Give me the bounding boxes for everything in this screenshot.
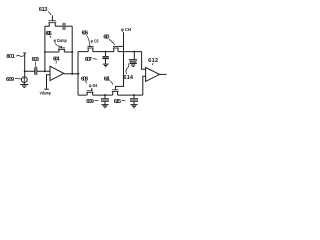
node dot C615/rail <box>133 94 135 96</box>
wire bottom rail right riser to op-amp 612 <box>143 76 146 95</box>
label 609 left <box>6 77 15 83</box>
label Vdamp <box>40 91 52 96</box>
wire damp branch <box>45 51 72 53</box>
lead line 614 <box>126 63 129 74</box>
label 607 <box>85 57 92 63</box>
svg-text:615: 615 <box>114 99 122 105</box>
transistor Q613 <box>48 15 56 26</box>
lead line 612 <box>151 63 154 66</box>
label 611 <box>104 77 111 83</box>
lead line phi Damp to gate <box>55 43 61 47</box>
capacitor C615 <box>130 95 138 104</box>
wire input horizontal to op-amp <box>25 70 50 72</box>
svg-text:Vdamp: Vdamp <box>40 91 52 96</box>
wire feedback loop right vertical <box>71 26 73 74</box>
ground under 607 <box>103 64 109 67</box>
wire output of 612 <box>160 73 167 75</box>
wire input vertical <box>24 53 26 77</box>
svg-text:φ C5: φ C5 <box>91 39 99 44</box>
ground under C615 <box>130 105 137 108</box>
wire feedback loop left vertical <box>44 26 46 71</box>
current source I609 <box>21 77 27 83</box>
label 604 <box>53 57 60 63</box>
svg-text:801: 801 <box>6 54 15 60</box>
resistor R603 <box>35 68 37 75</box>
svg-text:614: 614 <box>123 75 133 81</box>
transistor Q606 <box>87 45 93 52</box>
label 603 <box>32 57 40 63</box>
ground under 614 <box>130 64 137 67</box>
node dot feedback/damp <box>71 51 73 53</box>
svg-text:609: 609 <box>86 99 94 105</box>
ground under 609 <box>20 85 28 88</box>
wire Vdamp input stub <box>47 75 51 89</box>
op-amp U612 <box>146 67 160 81</box>
capacitor C607 <box>102 52 108 64</box>
capacitor C in feedback <box>63 23 65 30</box>
node dot 614/rail <box>133 51 135 53</box>
svg-text:φ CH: φ CH <box>121 27 131 32</box>
terminal tick Vdamp <box>44 88 49 90</box>
label phi C5 <box>91 39 99 44</box>
svg-text:610: 610 <box>103 34 109 40</box>
wire source to ground <box>23 83 25 85</box>
transistor Q610 <box>113 46 124 51</box>
svg-text:613: 613 <box>39 7 48 13</box>
label phi CH <box>121 27 131 32</box>
lead line 606 <box>86 35 89 44</box>
lead line 611 <box>110 81 113 85</box>
label 606 <box>82 31 89 37</box>
label 613 <box>39 7 48 13</box>
node dot feedback/output <box>71 73 73 75</box>
svg-text:608: 608 <box>81 76 89 82</box>
label 609 right <box>86 99 94 105</box>
svg-text:φ D4: φ D4 <box>89 83 98 88</box>
svg-text:605: 605 <box>46 31 53 37</box>
node 801 label <box>6 54 15 60</box>
lead line from 801 <box>16 54 24 57</box>
wire top branch middle <box>55 25 63 27</box>
capacitor C609 sample <box>101 95 109 104</box>
lead line 609 left <box>15 77 21 80</box>
svg-text:φ Damp: φ Damp <box>54 38 67 43</box>
svg-text:609: 609 <box>6 77 15 83</box>
svg-text:607: 607 <box>85 57 92 63</box>
op-amp U604 <box>50 66 64 80</box>
label 610 <box>103 34 109 40</box>
label 615 <box>114 99 122 105</box>
node dot damp-left <box>44 51 46 53</box>
lead line 605 <box>50 36 51 39</box>
wire phi CH vertical <box>116 32 124 89</box>
lead line 607 <box>93 58 97 61</box>
node dot C609/rail <box>104 94 106 96</box>
lead line 615 <box>122 99 126 102</box>
transistor Q605 damp switch <box>58 46 65 52</box>
wire top branch right <box>65 25 72 27</box>
transistor Q611 <box>112 90 119 95</box>
lead line 613 <box>48 11 51 15</box>
svg-text:604: 604 <box>53 57 60 63</box>
lead line 604 <box>55 61 57 63</box>
wire top rail right riser to op-amp 612 <box>142 52 146 70</box>
label phi Damp <box>54 38 67 43</box>
label 614 <box>123 75 133 81</box>
node dot riser/output <box>77 73 79 75</box>
transistor Q608 <box>86 88 93 95</box>
label 608 <box>81 76 89 82</box>
label 605 <box>46 31 53 37</box>
lead line 610 <box>109 39 115 45</box>
ground under C609 <box>101 105 108 108</box>
wire main riser (output to both rails) <box>77 52 79 96</box>
label phi D4 <box>89 83 98 88</box>
svg-text:611: 611 <box>104 77 111 83</box>
capacitor C614 <box>129 52 137 62</box>
svg-text:606: 606 <box>82 31 89 37</box>
node dot loop-left / input <box>44 70 46 72</box>
node dot 607/rail <box>105 51 107 53</box>
wire top rail <box>78 51 142 53</box>
lead line 608 <box>85 81 87 83</box>
input terminal tick <box>23 52 26 54</box>
lead line 609 right <box>95 99 99 102</box>
wire top branch left <box>45 23 49 27</box>
label 612 <box>148 58 158 64</box>
wire bottom rail <box>78 94 143 96</box>
node input junction dot <box>24 70 26 72</box>
lead line 603 <box>35 62 37 67</box>
wire op-amp output <box>64 73 80 75</box>
